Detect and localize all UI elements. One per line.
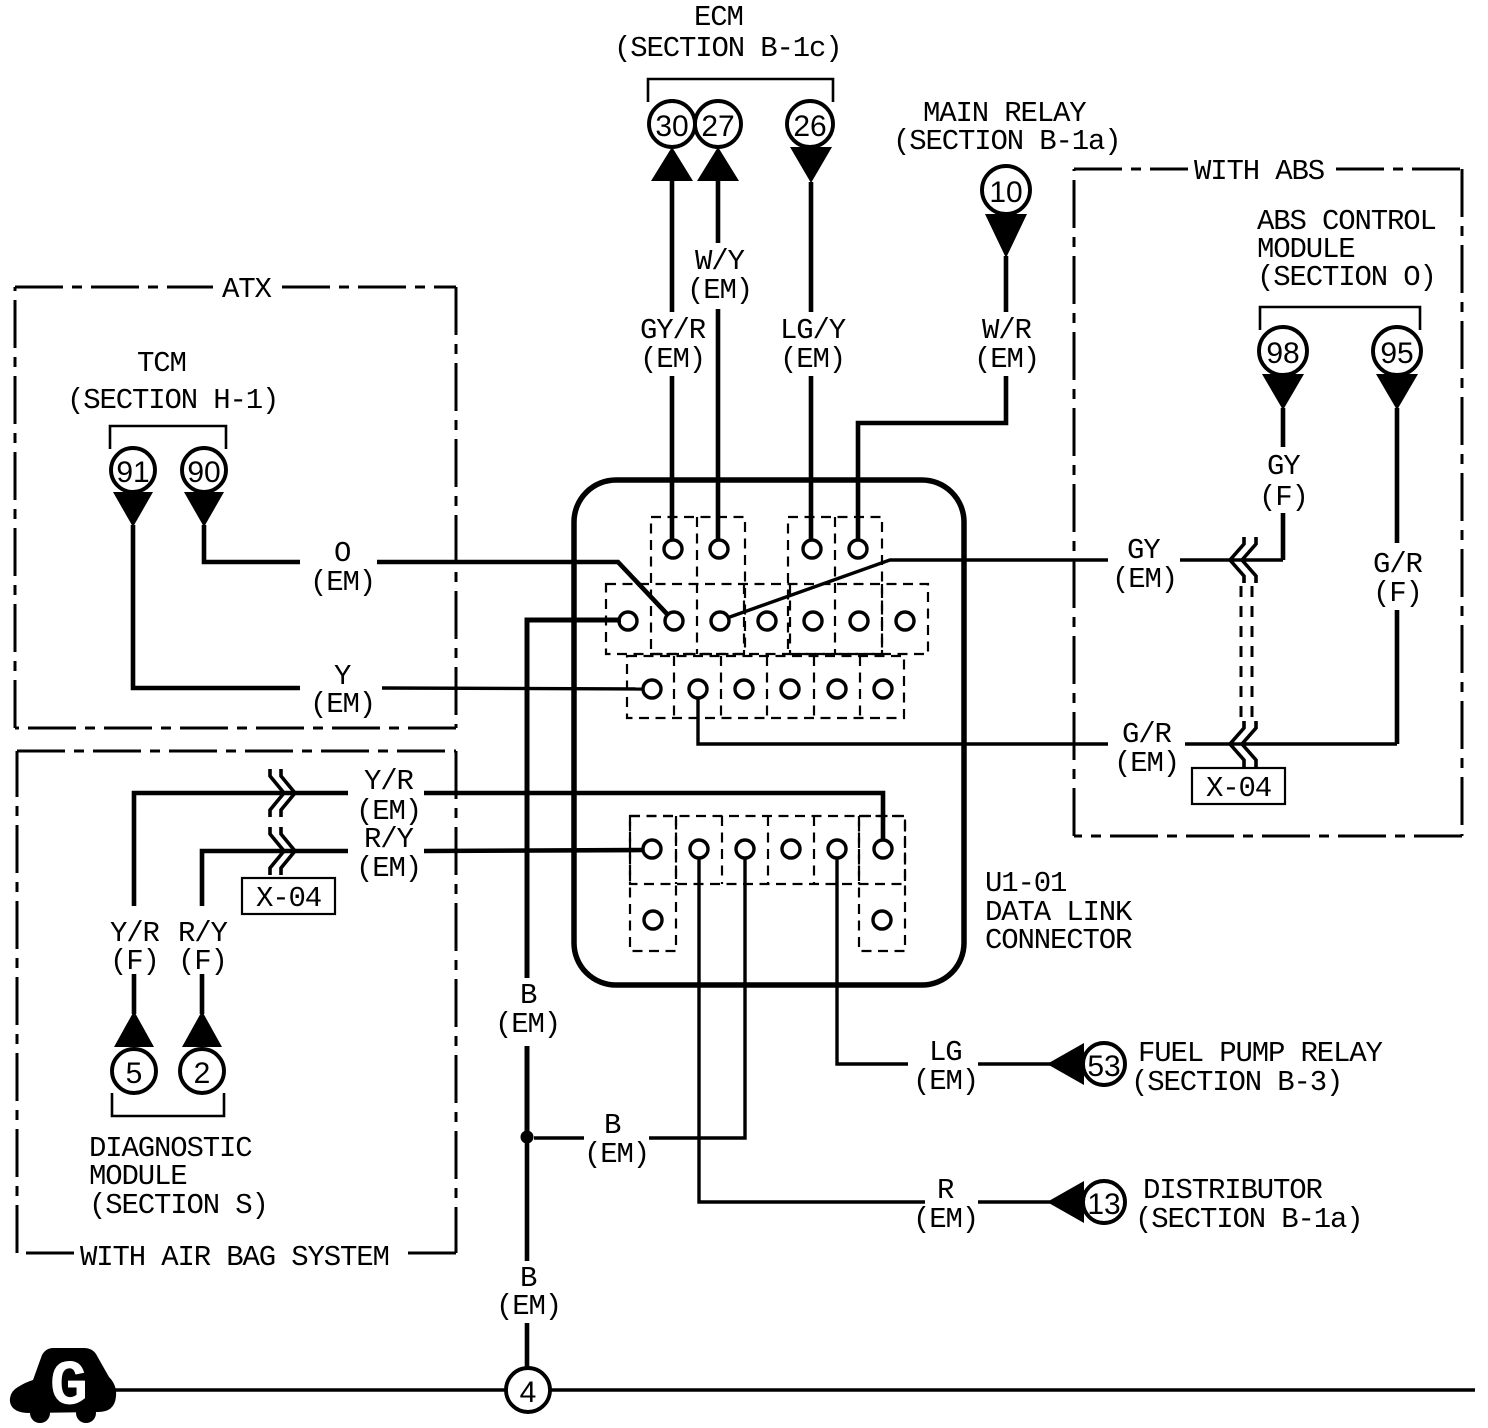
DIAGNOSTIC MODULE label <box>89 1132 268 1222</box>
TCM bracket <box>110 426 226 449</box>
arrow out of pin 26 <box>790 147 832 183</box>
svg-text:(EM): (EM) <box>687 274 752 307</box>
dashed cell box lower row <box>630 816 905 884</box>
wire B (EM) lower vertical <box>496 1138 561 1368</box>
svg-text:95: 95 <box>1380 337 1413 370</box>
svg-text:WITH ABS: WITH ABS <box>1194 155 1324 188</box>
svg-text:(SECTION H-1): (SECTION H-1) <box>67 384 278 417</box>
svg-text:2: 2 <box>194 1057 211 1090</box>
svg-text:(F): (F) <box>1373 577 1422 610</box>
wire W/R (EM) from relay 10 <box>858 256 1039 541</box>
ECM pin 30 <box>649 101 695 147</box>
dashed cell box third row <box>627 656 904 718</box>
lower row pin circles <box>643 840 892 858</box>
svg-text:CONNECTOR: CONNECTOR <box>985 924 1132 957</box>
ABS bracket <box>1260 307 1420 330</box>
FUEL PUMP RELAY label <box>1131 1037 1383 1099</box>
svg-text:91: 91 <box>116 456 149 489</box>
ABS pin 98 <box>1259 327 1307 375</box>
svg-text:X-04: X-04 <box>256 882 321 915</box>
wire GY/R (EM) to ECM 30 <box>640 180 706 541</box>
svg-text:53: 53 <box>1087 1050 1120 1083</box>
svg-text:(EM): (EM) <box>780 343 845 376</box>
svg-text:GY: GY <box>1267 450 1300 483</box>
wire O (EM) from TCM 90 <box>204 525 668 615</box>
svg-text:27: 27 <box>701 110 734 143</box>
wire R/Y (EM) from diagnostic module to connector <box>202 823 644 906</box>
arrow out of pin 91 <box>113 492 153 527</box>
dashed cell box top row right <box>788 517 882 654</box>
diagnostic module pin 2 <box>180 1049 224 1093</box>
svg-text:(SECTION O): (SECTION O) <box>1257 261 1436 294</box>
svg-text:(SECTION B-3): (SECTION B-3) <box>1131 1066 1342 1099</box>
wire LG/Y (EM) from ECM 26 <box>780 182 846 541</box>
arrow out of pin 98 <box>1262 374 1304 410</box>
junction node B <box>521 1131 534 1144</box>
svg-text:(EM): (EM) <box>356 852 421 885</box>
wire G/R (F) from ABS 95 <box>1373 408 1423 744</box>
arrow out of pin 90 <box>184 492 224 527</box>
svg-text:(EM): (EM) <box>640 343 705 376</box>
diagnostic module pin 5 <box>112 1049 156 1093</box>
wire R (EM) to distributor <box>699 858 1051 1236</box>
wire GY (F) from ABS 98 <box>1259 408 1308 560</box>
top row pin circles <box>664 540 867 558</box>
svg-text:(SECTION B-1c): (SECTION B-1c) <box>614 32 842 65</box>
wire Y/R (EM) from diagnostic module to connector <box>134 765 883 906</box>
TCM label <box>67 347 278 417</box>
svg-text:(F): (F) <box>1259 481 1308 514</box>
main relay pin 10 <box>982 166 1030 214</box>
svg-text:90: 90 <box>187 456 220 489</box>
svg-text:(EM): (EM) <box>913 1065 978 1098</box>
wire B (EM) branch to connector <box>534 858 745 1171</box>
diagnostic module bracket <box>112 1093 224 1116</box>
middle row pin circles <box>619 612 914 630</box>
svg-text:(EM): (EM) <box>913 1203 978 1236</box>
svg-text:10: 10 <box>989 176 1022 209</box>
svg-text:(SECTION S): (SECTION S) <box>89 1189 268 1222</box>
svg-text:(EM): (EM) <box>974 343 1039 376</box>
U1-01 data link connector outline <box>574 480 964 985</box>
dashed cell box top row left <box>651 517 745 654</box>
isolated lower pins <box>644 911 891 929</box>
svg-text:(EM): (EM) <box>310 566 375 599</box>
wire R/Y (F) lower segment <box>200 974 205 1014</box>
ECM pin 27 <box>695 101 741 147</box>
dashed option box WITH ABS <box>1074 155 1462 836</box>
X-04 label box right <box>1192 768 1285 805</box>
X-04 label box left <box>242 878 335 915</box>
svg-text:4: 4 <box>520 1376 537 1409</box>
wire Y (EM) from TCM 91 <box>133 525 644 721</box>
wire Y/R (F) label <box>110 917 160 978</box>
svg-text:(SECTION B-1a): (SECTION B-1a) <box>893 125 1121 158</box>
U1-01 label <box>985 867 1133 957</box>
fuel pump relay pin 53 <box>1083 1043 1125 1085</box>
arrow out of pin 95 <box>1376 374 1418 410</box>
arrow into pin 27 <box>697 147 739 181</box>
arrow into fuel pump relay <box>1047 1043 1084 1085</box>
arrow out of pin 10 <box>985 214 1027 258</box>
svg-text:X-04: X-04 <box>1206 772 1271 805</box>
svg-text:30: 30 <box>655 110 688 143</box>
svg-text:WITH AIR BAG SYSTEM: WITH AIR BAG SYSTEM <box>80 1241 389 1274</box>
arrow into diag pin 5 <box>114 1011 154 1047</box>
svg-text:(F): (F) <box>110 945 159 978</box>
dashed option box ATX <box>15 273 456 728</box>
ground car symbol G <box>10 1348 116 1424</box>
svg-text:(EM): (EM) <box>310 688 375 721</box>
svg-text:13: 13 <box>1087 1188 1120 1221</box>
wire GY (EM) from middle pin to ABS <box>727 534 1283 618</box>
TCM pin 91 <box>111 448 155 492</box>
svg-text:(EM): (EM) <box>584 1138 649 1171</box>
svg-text:G: G <box>50 1352 88 1424</box>
wire Y/R (F) lower segment <box>132 974 137 1014</box>
dashed tall cell lower-left <box>630 816 676 951</box>
svg-text:98: 98 <box>1266 337 1299 370</box>
dashed option box WITH AIR BAG SYSTEM <box>17 751 456 1274</box>
ECM label <box>614 1 842 65</box>
wire B (EM) main vertical <box>495 620 621 1138</box>
wire R/Y (F) label <box>178 917 228 978</box>
connector X-04 boundary marks left side <box>270 769 295 875</box>
svg-text:(F): (F) <box>178 945 227 978</box>
arrow into diag pin 2 <box>182 1011 222 1047</box>
svg-text:(EM): (EM) <box>495 1008 560 1041</box>
ground bus wire <box>114 1388 1475 1391</box>
wire LG (EM) to fuel pump relay <box>837 858 1051 1098</box>
ECM bracket <box>648 79 833 102</box>
svg-text:(SECTION B-1a): (SECTION B-1a) <box>1135 1203 1363 1236</box>
svg-text:ECM: ECM <box>694 1 743 34</box>
distributor pin 13 <box>1083 1181 1125 1223</box>
wire W/Y (EM) to ECM 27 <box>687 180 752 541</box>
svg-text:TCM: TCM <box>137 347 186 380</box>
ground node 4 <box>506 1368 550 1412</box>
TCM pin 90 <box>182 448 226 492</box>
wire G/R (EM) from third row pin to ABS <box>698 697 1397 780</box>
ABS pin 95 <box>1373 327 1421 375</box>
ECM pin 26 <box>787 101 833 147</box>
MAIN RELAY label <box>893 97 1121 158</box>
third row pin circles <box>643 680 892 698</box>
svg-text:(EM): (EM) <box>1114 747 1179 780</box>
svg-text:26: 26 <box>793 110 826 143</box>
svg-text:(EM): (EM) <box>496 1290 561 1323</box>
svg-text:(EM): (EM) <box>1112 563 1177 596</box>
arrow into pin 30 <box>651 147 693 181</box>
svg-text:5: 5 <box>126 1057 143 1090</box>
connector X-04 boundary marks right side <box>1230 537 1256 767</box>
ABS CONTROL MODULE label <box>1257 205 1436 294</box>
dashed tall cell lower-right <box>859 816 905 951</box>
dashed cell box middle row <box>606 584 928 654</box>
svg-text:Y/R: Y/R <box>364 765 414 798</box>
arrow into distributor <box>1047 1181 1084 1223</box>
svg-text:ATX: ATX <box>222 273 272 306</box>
DISTRIBUTOR label <box>1135 1174 1363 1236</box>
